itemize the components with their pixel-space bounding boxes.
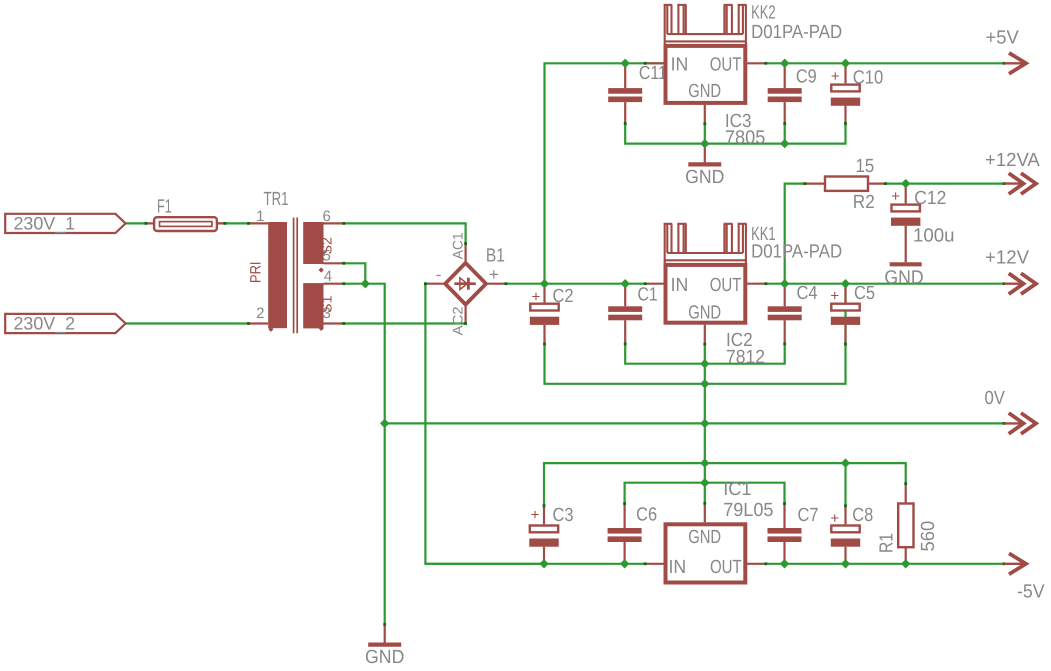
wire C6 to C7 rail — [625, 483, 785, 504]
svg-text:230V_1: 230V_1 — [14, 213, 76, 233]
svg-text:S2: S2 — [319, 237, 335, 255]
svg-text:TR1: TR1 — [264, 189, 289, 210]
heatsink KK1 — [664, 224, 843, 263]
node C8 top — [841, 458, 850, 467]
svg-text:C3: C3 — [553, 505, 574, 526]
node 0V/gnd drop — [380, 419, 389, 428]
node C1/IN — [621, 279, 630, 288]
wire C12 node to +12VA arrow — [906, 183, 1004, 185]
node IC2 gnd rail — [700, 359, 709, 368]
svg-text:GND: GND — [685, 167, 724, 188]
wire -5V rail right segment — [766, 563, 1004, 565]
svg-text:C12: C12 — [914, 188, 946, 209]
svg-text:+: + — [531, 507, 540, 524]
node gnd rail IC3 — [700, 139, 709, 148]
svg-text:GND: GND — [688, 303, 721, 324]
node C6/C7 rail — [700, 478, 709, 487]
node +5V/C11 — [621, 59, 630, 68]
wire IC3 GND pin to rail — [704, 124, 706, 144]
voltage regulator IC2 7812 — [645, 265, 766, 368]
node C2-C5 gnd rail — [700, 379, 709, 388]
svg-text:D01PA-PAD: D01PA-PAD — [751, 22, 842, 43]
svg-text:C9: C9 — [796, 67, 817, 88]
svg-text:IN: IN — [671, 275, 689, 296]
capacitor C10 — [831, 63, 883, 123]
wire F1 to TR1 pin 1 — [217, 222, 249, 224]
wire 230V_2 to TR1 pin 2 — [126, 322, 249, 324]
node C8/-5V — [841, 559, 850, 568]
svg-text:230V_2: 230V_2 — [14, 314, 76, 334]
svg-text:-: - — [436, 265, 442, 284]
svg-text:AC2: AC2 — [450, 306, 466, 335]
svg-text:AC1: AC1 — [450, 232, 466, 259]
svg-text:C8: C8 — [852, 505, 873, 526]
svg-text:R2: R2 — [853, 192, 875, 213]
capacitor C12 — [891, 184, 955, 263]
wire IC3 gnd rail — [625, 124, 845, 144]
svg-text:15: 15 — [856, 156, 875, 177]
wire C3 to R1 top rail — [544, 463, 906, 506]
svg-text:4: 4 — [324, 268, 332, 285]
node R1/-5V — [901, 559, 910, 568]
capacitor C4 — [768, 283, 818, 344]
svg-text:GND: GND — [884, 267, 923, 288]
svg-text:KK2: KK2 — [751, 3, 776, 24]
voltage regulator IC3 7805 — [645, 46, 766, 149]
wire 0V rail — [385, 422, 1004, 424]
pin connection dots — [145, 62, 1006, 626]
svg-text:+5V: +5V — [986, 28, 1020, 49]
svg-text:+: + — [830, 288, 839, 305]
resistor R1 — [876, 484, 939, 564]
bridge rectifier B1 — [425, 232, 506, 335]
wire IC3 OUT to +5V arrow — [766, 62, 1004, 64]
connector 230V_1 — [5, 213, 125, 233]
heatsink KK2 — [664, 3, 843, 45]
svg-text:1: 1 — [256, 208, 264, 225]
svg-text:C10: C10 — [853, 68, 883, 89]
voltage regulator IC1 79L05 — [645, 479, 773, 583]
svg-text:OUT: OUT — [710, 54, 742, 75]
svg-text:IN: IN — [671, 54, 689, 75]
gnd symbol below C12 — [884, 264, 923, 288]
node C5/+12V — [841, 279, 850, 288]
wire riser C2 node to IC3 row — [545, 63, 626, 283]
output arrow -5V — [1004, 553, 1045, 602]
svg-text:+: + — [532, 289, 541, 306]
wire C2 to C5 gnd rail — [545, 284, 846, 384]
svg-text:C7: C7 — [798, 505, 819, 526]
capacitor C8 — [830, 505, 873, 564]
wire B1 plus to +12V rail — [506, 283, 645, 285]
connector 230V_2 — [5, 314, 125, 334]
svg-text:C11: C11 — [639, 63, 667, 84]
capacitor C1 — [608, 284, 657, 344]
node 0V/gnd column — [700, 419, 709, 428]
node C3/-5V — [539, 559, 548, 568]
node B1+/C2 — [540, 279, 549, 288]
svg-text:GND: GND — [688, 527, 721, 548]
svg-text:6: 6 — [323, 208, 331, 225]
capacitor C9 — [768, 63, 817, 123]
svg-text:2: 2 — [256, 305, 264, 322]
wire 230V_1 to F1 — [126, 222, 146, 224]
svg-text:C4: C4 — [797, 283, 818, 304]
svg-text:PRI: PRI — [247, 262, 264, 284]
node OUT/C4/R2 — [780, 279, 789, 288]
svg-text:C6: C6 — [636, 504, 657, 525]
capacitor C3 — [529, 505, 573, 564]
svg-text:B1: B1 — [486, 246, 505, 267]
svg-text:F1: F1 — [157, 197, 172, 218]
svg-text:100u: 100u — [913, 226, 955, 247]
svg-text:IC1: IC1 — [723, 479, 751, 500]
svg-text:OUT: OUT — [710, 275, 742, 296]
gnd symbol bottom left — [365, 624, 404, 668]
node R2/C12 — [901, 179, 910, 188]
output arrow +5V — [986, 28, 1027, 74]
gnd symbol below IC3 — [685, 144, 724, 189]
svg-text:-5V: -5V — [1017, 582, 1045, 603]
node gnd rail C9 — [780, 139, 789, 148]
svg-text:79L05: 79L05 — [723, 500, 773, 521]
wire TR1 pin 4 to GND drop — [344, 284, 385, 625]
svg-text:0V: 0V — [985, 388, 1006, 409]
svg-text:+: + — [891, 188, 900, 205]
wire IC2 OUT to +12V arrow — [766, 283, 1004, 285]
wire +12V rail to R2 — [785, 184, 805, 284]
svg-text:GND: GND — [688, 81, 721, 102]
resistor R2 — [805, 156, 886, 213]
svg-text:7805: 7805 — [725, 128, 766, 149]
svg-text:C1: C1 — [638, 284, 658, 305]
node TR1 pin5/pin4 — [361, 279, 370, 288]
svg-text:+12V: +12V — [985, 248, 1029, 269]
svg-text:IN: IN — [669, 557, 687, 578]
svg-text:C2: C2 — [553, 286, 574, 307]
svg-text:R1: R1 — [876, 533, 897, 553]
wire TR1 pin 3 to AC2 — [344, 322, 466, 324]
capacitor C2 — [530, 284, 574, 344]
wire C8 riser — [844, 463, 846, 506]
node C7/OUT — [780, 559, 789, 568]
svg-text:+: + — [830, 510, 839, 527]
output arrow 0V — [985, 388, 1037, 434]
node IC1 rail/gnd — [700, 458, 709, 467]
svg-text:+: + — [489, 265, 499, 284]
capacitor C11 — [608, 63, 667, 124]
capacitor C6 — [608, 504, 658, 564]
svg-text:+12VA: +12VA — [985, 150, 1040, 171]
transformer TR1 — [247, 189, 343, 333]
wire C11 node to IC3 IN — [625, 62, 664, 64]
wire B1 minus down to -5V rail — [425, 284, 544, 564]
svg-text:D01PA-PAD: D01PA-PAD — [751, 241, 842, 262]
output arrow +12VA — [985, 150, 1040, 194]
output arrow +12V — [985, 248, 1036, 295]
svg-text:560: 560 — [918, 521, 939, 552]
wire TR1 pin 5 down to node — [344, 263, 366, 283]
capacitor C5 — [830, 283, 875, 344]
svg-text:+: + — [831, 68, 840, 85]
wire -5V rail left segment — [425, 563, 645, 565]
wire C1 to C4 gnd rail — [625, 344, 785, 364]
svg-text:7812: 7812 — [726, 347, 765, 368]
wire TR1 pin 6 to AC1 — [344, 223, 466, 243]
svg-text:GND: GND — [365, 647, 404, 668]
node +5V/C9 — [780, 59, 789, 68]
fuse F1 — [146, 197, 225, 232]
wire IC2 GND pin to rail — [704, 344, 706, 364]
wire C9 lower lead — [784, 124, 786, 144]
wire R2 to C12 node — [885, 183, 905, 185]
svg-text:S1: S1 — [319, 295, 335, 313]
svg-text:C5: C5 — [854, 283, 875, 304]
wire gnd column — [704, 364, 706, 504]
node +5V/C10 — [841, 59, 850, 68]
node C6/-5V — [620, 559, 629, 568]
capacitor C7 — [768, 504, 819, 564]
svg-text:OUT: OUT — [710, 557, 742, 578]
